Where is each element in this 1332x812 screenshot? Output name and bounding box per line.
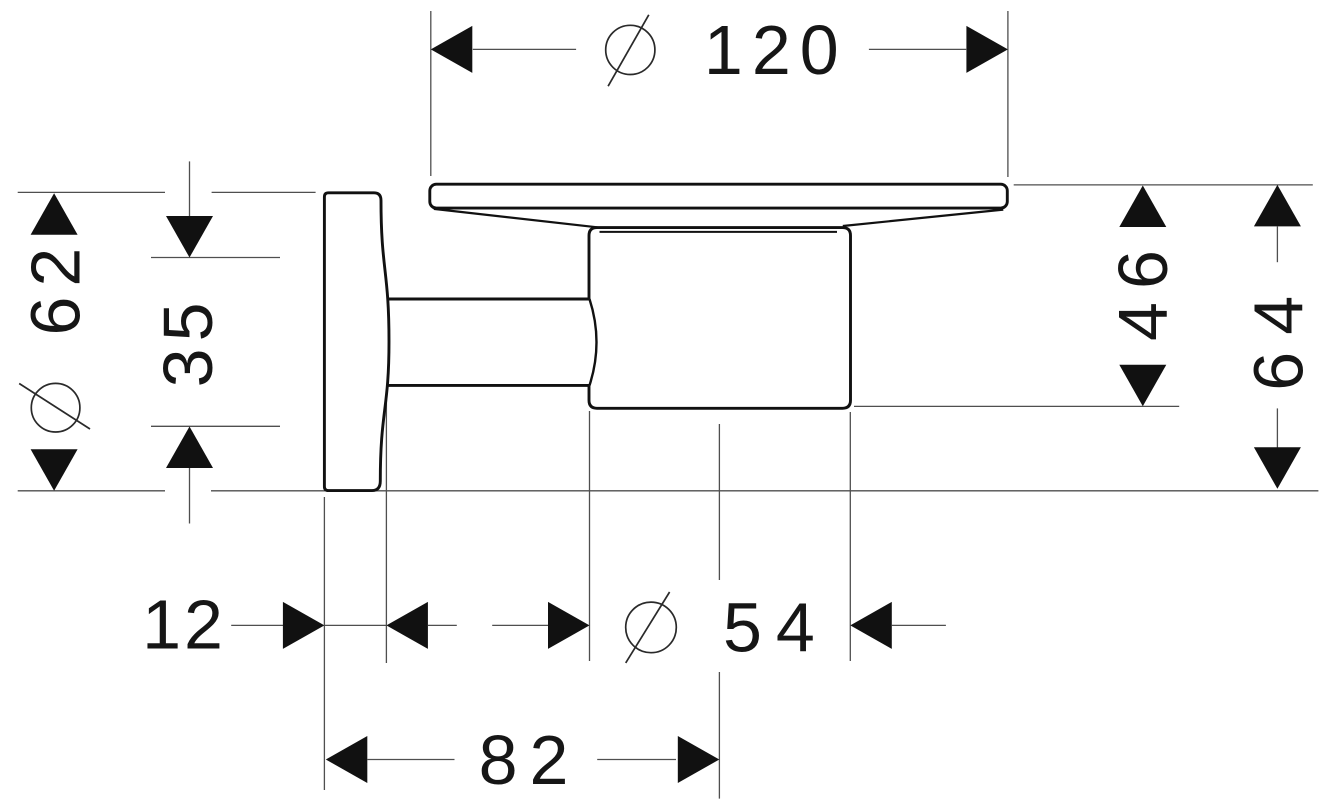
diameter symbol of dim 120 bbox=[606, 15, 655, 86]
arm top line bbox=[388, 298, 590, 301]
svg-text:46: 46 bbox=[1104, 237, 1182, 341]
dish underside left slope bbox=[434, 209, 598, 227]
diameter symbol of dim 54 bbox=[626, 592, 677, 663]
dimension 54: left-pointing arrowhead and right tail bbox=[850, 602, 892, 649]
dimension 54: left tail and right-pointing arrowhead bbox=[492, 624, 548, 626]
cup (tumbler holder) outline bbox=[589, 228, 851, 409]
extension line: dish right (for dim 120) bbox=[1007, 11, 1009, 177]
dimension 12: right-pointing arrowhead bbox=[283, 602, 325, 649]
dimension 64: lower tail and bottom arrowhead bbox=[1276, 408, 1278, 449]
extension line: cup axis vertical (for dims 54 and 82) bbox=[718, 424, 720, 799]
svg-text:35: 35 bbox=[149, 295, 227, 387]
dish underside right slope bbox=[843, 210, 1004, 226]
dimension 64: top arrowhead and tail bbox=[1254, 185, 1301, 227]
dish plate top bar bbox=[430, 184, 1008, 208]
cup inner rim line bbox=[600, 231, 838, 233]
extension line: plate top (for dim 62) bbox=[18, 191, 316, 193]
dimension 120: right arrowhead bbox=[966, 26, 1008, 73]
dimension 35: lower arrowhead and tail bbox=[166, 427, 213, 469]
svg-text:62: 62 bbox=[17, 238, 95, 336]
dimension 120: left arrowhead bbox=[431, 26, 473, 73]
dimension 46: top arrowhead bbox=[1119, 186, 1166, 228]
svg-text:54: 54 bbox=[723, 588, 829, 666]
extension line: dish top right (for dims 46 and 64) bbox=[1014, 184, 1313, 186]
wall plate (escutcheon) outline bbox=[324, 193, 389, 491]
extension line: cup left vertical (for dim 54) bbox=[589, 411, 591, 661]
dimension 35: upper tail and arrowhead bbox=[189, 161, 191, 216]
extension line: cup right vertical (for dim 54) bbox=[849, 412, 851, 661]
dimension 12: line between extension lines bbox=[324, 624, 386, 626]
dimension 12: tail from label bbox=[231, 624, 283, 626]
svg-text:12: 12 bbox=[142, 585, 226, 663]
diameter symbol of dim 62 (rotated) bbox=[19, 383, 90, 432]
extension line: dish left (for dim 120) bbox=[430, 11, 432, 176]
dimension 82: right tail and arrowhead bbox=[597, 759, 676, 761]
extension line: lower ref of dim 35 bbox=[151, 425, 280, 427]
arm-to-cup fillet arc bbox=[590, 299, 597, 385]
extension line: upper ref of dim 35 bbox=[151, 257, 280, 259]
extension line: cup bottom right (for dim 46) bbox=[854, 405, 1179, 407]
svg-text:82: 82 bbox=[479, 721, 581, 799]
arm bottom line bbox=[388, 384, 590, 387]
dimension 62: top arrowhead bbox=[31, 193, 78, 235]
extension line: arm root vertical (for dim 12) bbox=[385, 396, 387, 663]
dimension 12: left-pointing arrowhead and tail bbox=[386, 602, 428, 649]
svg-text:64: 64 bbox=[1240, 279, 1318, 391]
svg-text:120: 120 bbox=[704, 11, 848, 89]
extension line: plate bottom, long (for dims 62 and 64) bbox=[18, 490, 1319, 492]
dimension 46: bottom arrowhead bbox=[1119, 365, 1166, 407]
dimension 120: line tails bbox=[473, 48, 966, 50]
dimension 62: bottom arrowhead bbox=[31, 449, 78, 491]
dimension 82: left arrowhead and tail bbox=[326, 736, 368, 783]
extension line: plate left vertical (for dims 12 and 82) bbox=[323, 497, 325, 790]
